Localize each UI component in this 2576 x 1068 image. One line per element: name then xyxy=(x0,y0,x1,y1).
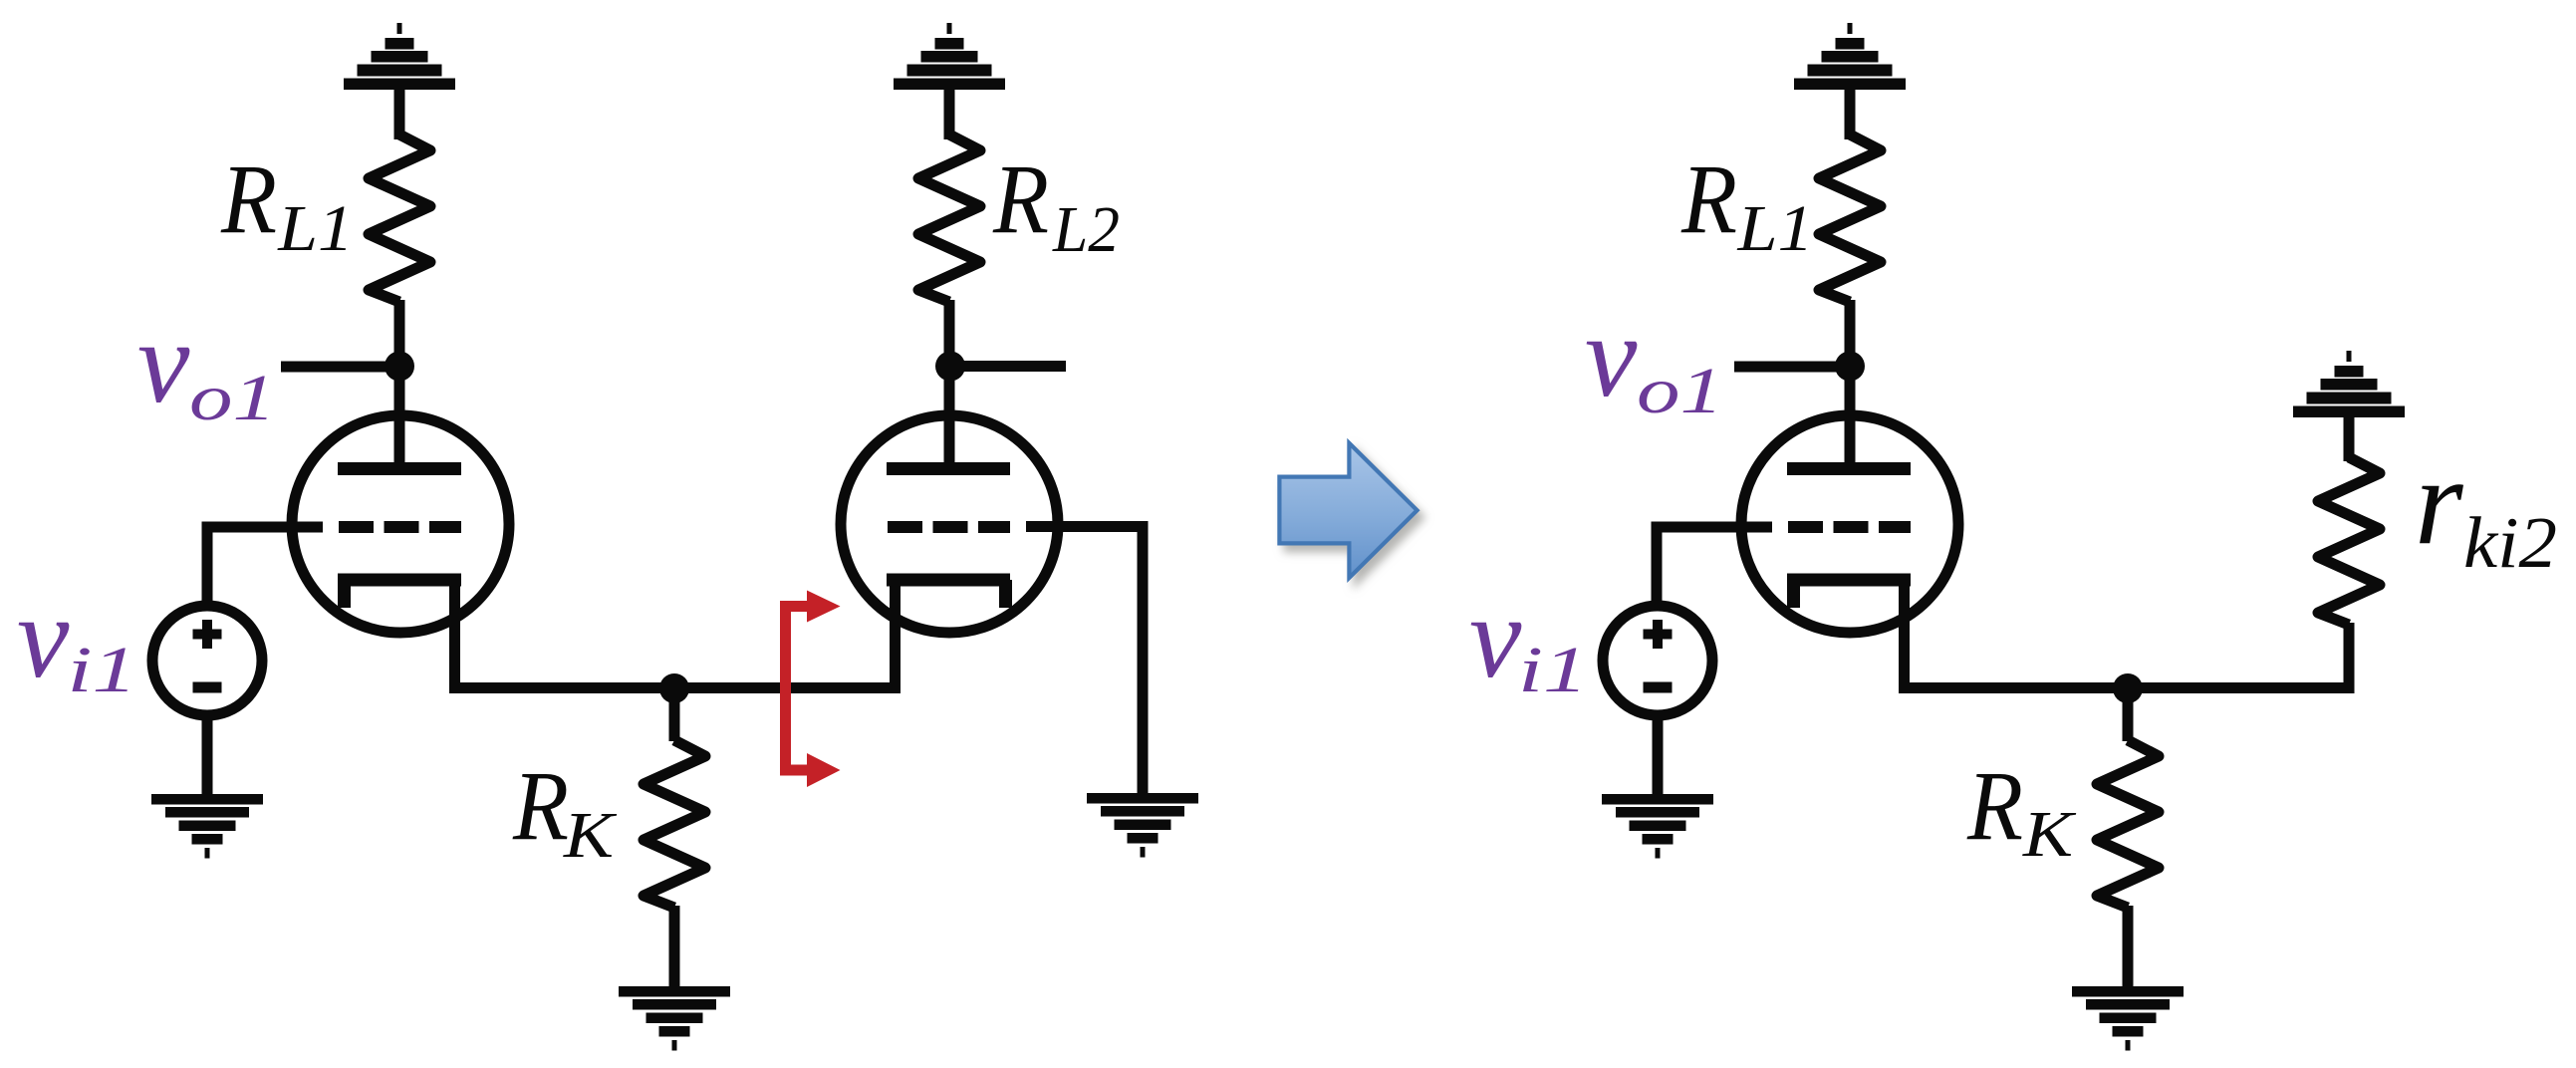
power supply B+ for RL1 (right) xyxy=(1794,23,1906,90)
envelope xyxy=(841,415,1058,633)
svg-text:v: v xyxy=(1585,291,1638,421)
label vo1 (left) xyxy=(137,297,276,434)
grid (dashed) xyxy=(339,521,461,533)
wire cathode V1 to cathode V2 bus xyxy=(455,578,902,688)
wire vo1 stub (left) xyxy=(281,362,402,373)
svg-text:R: R xyxy=(1680,143,1737,254)
wire RL2 to plate V2 (through node) xyxy=(944,300,955,470)
svg-text:R: R xyxy=(992,143,1049,254)
label vi1 (left) xyxy=(17,572,137,706)
node vo1 junction (right) xyxy=(1835,352,1865,382)
triode V2 xyxy=(841,415,1058,633)
wire node to RK (right) xyxy=(2123,688,2134,741)
blue block arrow (transformation) xyxy=(1279,443,1417,578)
wire RL1 to plate (through node vo1) xyxy=(394,300,405,470)
svg-text:i1: i1 xyxy=(68,634,137,706)
svg-text:v: v xyxy=(137,297,190,427)
label rki2 xyxy=(2415,433,2557,583)
svg-text:r: r xyxy=(2415,433,2464,571)
power supply B+ above rki2 xyxy=(2293,351,2405,417)
resistor RL1 (left) xyxy=(369,134,430,302)
label vo1 (right) xyxy=(1585,291,1723,427)
wire grid to vi1 (right) xyxy=(1657,527,1772,606)
svg-text:L1: L1 xyxy=(1736,192,1813,265)
svg-text:K: K xyxy=(563,799,618,872)
svg-text:L1: L1 xyxy=(277,192,354,265)
resistor RL1 (right) xyxy=(1819,134,1881,302)
triode V1 (left) xyxy=(292,415,509,633)
node cathode junction (right) xyxy=(2113,673,2143,703)
wire cathode to RK node to rki2 xyxy=(1905,578,2350,688)
svg-text:K: K xyxy=(2022,798,2077,871)
plate xyxy=(1787,462,1911,475)
wire grid V1 to vi1 xyxy=(207,527,323,606)
ground under RK (left) xyxy=(619,986,730,1051)
label RL2 xyxy=(992,143,1120,266)
grid (dashed) xyxy=(888,521,1010,533)
power supply B+ for RL2 xyxy=(894,23,1005,90)
svg-text:L2: L2 xyxy=(1052,193,1120,266)
wire vo1 stub (right) xyxy=(1734,362,1853,373)
svg-text:i1: i1 xyxy=(1518,634,1588,706)
label RK (left) xyxy=(512,750,617,872)
plate xyxy=(338,462,461,475)
wire cathode leg V2 xyxy=(890,578,901,688)
grid (dashed) xyxy=(1788,521,1911,533)
svg-text:o1: o1 xyxy=(189,362,276,434)
source vi1 (left) xyxy=(152,606,262,715)
wire supply to RL2 xyxy=(944,88,955,139)
svg-text:R: R xyxy=(1966,750,2023,861)
wire RL1 to plate (right) xyxy=(1845,300,1856,470)
wire grid V2 to ground xyxy=(1026,527,1143,798)
wire rki2 to supply xyxy=(2344,415,2355,461)
cathode xyxy=(887,580,1010,608)
resistor RK (right) xyxy=(2097,740,2159,908)
wire RK to ground xyxy=(669,906,680,988)
cathode xyxy=(338,580,461,608)
svg-text:R: R xyxy=(220,143,277,254)
source vi1 (right) xyxy=(1603,606,1712,715)
envelope xyxy=(292,415,509,633)
ground under vi1 (left) xyxy=(151,794,263,859)
ground under grid V2 xyxy=(1087,793,1198,858)
svg-text:o1: o1 xyxy=(1637,355,1723,427)
label RL1 (right) xyxy=(1680,143,1813,265)
svg-text:ki2: ki2 xyxy=(2463,502,2557,583)
red fold arrow annotation xyxy=(786,591,841,788)
resistor RL2 xyxy=(918,134,980,302)
label RL1 (left) xyxy=(220,143,354,265)
node plate V2 junction xyxy=(935,352,965,382)
wire vo2 stub xyxy=(946,361,1066,372)
wire supply to RL1 (right) xyxy=(1845,88,1856,139)
triode V1 (right) xyxy=(1741,415,1958,633)
power supply B+ for RL1 (left) xyxy=(344,23,455,90)
svg-text:R: R xyxy=(512,750,569,861)
ground under RK (right) xyxy=(2072,986,2184,1051)
wire vi1 to ground (right) xyxy=(1653,712,1664,797)
wire RK to ground (right) xyxy=(2123,906,2134,988)
wire supply to RL1 xyxy=(394,88,405,139)
node cathode junction RK (left) xyxy=(659,673,689,703)
label RK (right) xyxy=(1966,750,2076,871)
node vo1 junction (left) xyxy=(385,352,414,382)
wire node to RK xyxy=(669,688,680,741)
envelope xyxy=(1741,415,1958,633)
label vi1 (right) xyxy=(1469,572,1588,706)
wire vi1 to ground xyxy=(202,712,213,797)
svg-text:v: v xyxy=(17,572,70,702)
resistor RK (left) xyxy=(644,740,705,908)
svg-text:v: v xyxy=(1469,572,1522,702)
resistor rki2 xyxy=(2318,457,2380,625)
cathode xyxy=(1787,580,1911,608)
plate xyxy=(887,462,1010,475)
ground under vi1 (right) xyxy=(1602,794,1713,859)
